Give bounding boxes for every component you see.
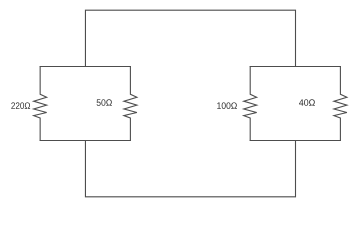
- resistor R2 50ohm: [124, 67, 137, 141]
- resistor R3 100ohm: [244, 67, 257, 141]
- wire: left network bottom rail: [40, 140, 130, 142]
- label 220ohm: [11, 102, 30, 109]
- resistor R4 40ohm: [334, 67, 347, 141]
- wire: left network top rail: [40, 66, 130, 68]
- label 40ohm: [299, 99, 315, 106]
- wire: right network bottom rail: [250, 140, 340, 142]
- label 50ohm: [97, 99, 112, 106]
- wire: outer loop top (node A to node B): [85, 10, 295, 66]
- resistor R1 220ohm: [34, 67, 47, 141]
- label 100ohm: [217, 102, 237, 109]
- wire: right network top rail: [250, 66, 340, 68]
- wire: outer loop bottom: [85, 141, 295, 197]
